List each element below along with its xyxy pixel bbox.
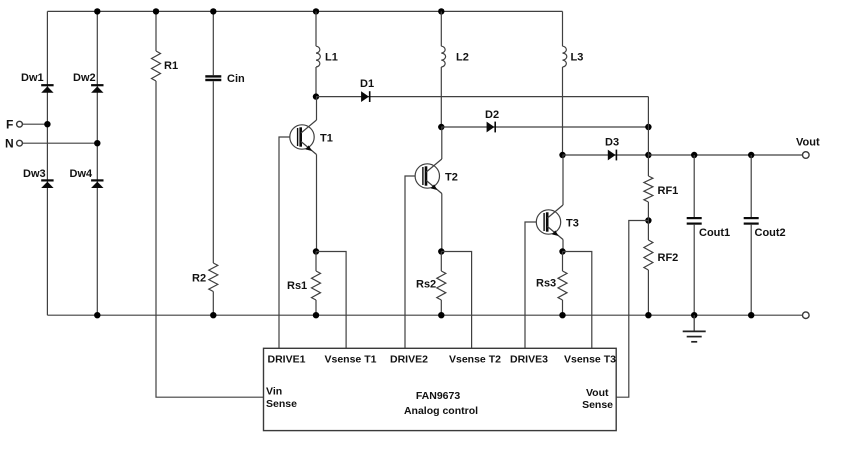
wire R2 bottom: [212, 292, 214, 316]
wire DRIVE3: [525, 222, 537, 348]
wire T1 emitter: [316, 155, 318, 252]
junction Rs3 bottom rail: [559, 312, 565, 318]
wire Cin to R2: [212, 81, 214, 263]
svg-text:Cout1: Cout1: [699, 227, 730, 239]
junction R1 top rail: [153, 8, 159, 14]
wire top rail: [47, 10, 562, 12]
wire DRIVE2: [405, 176, 415, 348]
svg-text:T3: T3: [566, 217, 579, 229]
node L3/T3/D3: [559, 152, 565, 158]
svg-text:Vin: Vin: [266, 385, 282, 397]
svg-text:T1: T1: [320, 132, 333, 144]
terminal output return: [803, 312, 810, 319]
junction N on leg2: [94, 140, 100, 146]
node L1/T1/D1: [313, 93, 319, 99]
capacitor Cin: [205, 75, 221, 77]
svg-text:DRIVE1: DRIVE1: [268, 354, 306, 366]
wire Cin leg top: [212, 11, 214, 75]
wire Cout2 bottom: [750, 225, 752, 316]
resistor Rs2: [437, 271, 446, 300]
svg-text:Cin: Cin: [227, 73, 245, 85]
junction T2 emitter / Rs2 / Vsense T2: [438, 248, 444, 254]
wire D1 bus corner: [647, 97, 649, 155]
wire T3 emitter: [562, 240, 564, 252]
node L2/T2/D2: [438, 124, 444, 130]
op-amp U1 FAN9673 box: [264, 348, 617, 430]
capacitor Cout2: [744, 217, 759, 219]
wire RF1-RF2: [647, 202, 649, 240]
diode Dw3: [41, 179, 53, 181]
wire T3 collector: [562, 155, 564, 205]
junction RF2 bottom rail: [645, 312, 651, 318]
wire L1 top: [315, 11, 317, 46]
inductor L3: [563, 46, 567, 67]
svg-text:Vsense T1: Vsense T1: [325, 354, 377, 366]
wire L3 to node: [562, 67, 564, 155]
svg-text:Dw3: Dw3: [23, 168, 46, 180]
ground: [693, 315, 695, 331]
wire T2 emitter: [441, 194, 443, 252]
junction Cout2 bottom rail: [748, 312, 754, 318]
svg-text:D2: D2: [485, 109, 499, 121]
svg-text:Dw2: Dw2: [73, 72, 96, 84]
junction RF1/RF2/Vout-sense: [645, 217, 651, 223]
wire Vsense T3: [563, 252, 592, 349]
junction R2 bottom rail: [210, 312, 216, 318]
junction F on leg1: [44, 121, 50, 127]
wire R1 top: [155, 11, 157, 51]
wire Vsense T1: [316, 252, 346, 349]
svg-text:D3: D3: [605, 136, 619, 148]
resistor RF2: [644, 240, 653, 270]
wire bridge leg 2 (Dw2/Dw4): [96, 11, 98, 315]
svg-text:L1: L1: [325, 52, 338, 64]
svg-text:Sense: Sense: [582, 399, 613, 411]
diode D3: [563, 154, 649, 156]
wire Rs2 top: [440, 252, 442, 272]
diode D1: [316, 96, 648, 98]
svg-text:N: N: [5, 137, 14, 151]
svg-text:Vsense T3: Vsense T3: [564, 354, 616, 366]
wire Rs1 top: [315, 252, 317, 272]
svg-text:T2: T2: [445, 171, 458, 183]
wire L1 to node: [315, 67, 317, 97]
transistor T2: [415, 164, 439, 188]
diode Dw2: [91, 84, 103, 86]
junction T3 emitter / Rs3 / Vsense T3: [559, 248, 565, 254]
wire Cout1 bottom: [693, 225, 695, 316]
svg-text:L3: L3: [571, 52, 584, 64]
resistor R1: [152, 51, 161, 81]
wire L2 to node: [440, 67, 442, 127]
junction bridge leg 2 bottom rail: [94, 312, 100, 318]
wire F to bridge: [22, 123, 47, 125]
wire Rs3 bottom: [562, 300, 564, 315]
junction T1 emitter / Rs1 / Vsense T1: [313, 248, 319, 254]
wire Cout1 top: [693, 155, 695, 217]
terminal Vout: [803, 152, 810, 159]
inductor L1: [316, 46, 320, 67]
junction bridge leg 2 top rail: [94, 8, 100, 14]
terminal F: [17, 121, 23, 127]
resistor RF1: [644, 176, 653, 202]
junction D2 cathode bus: [645, 124, 651, 130]
junction Cout2 top: [748, 152, 754, 158]
wire DRIVE1: [279, 137, 290, 348]
junction L1 top rail: [313, 8, 319, 14]
wire T1 collector: [316, 97, 318, 120]
svg-text:Vout: Vout: [586, 387, 609, 399]
svg-text:RF2: RF2: [658, 252, 679, 264]
junction Cin top rail: [210, 8, 216, 14]
wire R1 to Vin Sense: [156, 81, 264, 397]
svg-text:Dw1: Dw1: [21, 72, 44, 84]
svg-text:L2: L2: [456, 52, 469, 64]
svg-text:R1: R1: [164, 60, 178, 72]
junction L2 top rail: [438, 8, 444, 14]
wire RF2 bottom: [647, 270, 649, 315]
junction Rs2 bottom rail: [438, 312, 444, 318]
wire L3 top: [562, 11, 564, 46]
svg-text:Vout: Vout: [796, 137, 820, 149]
wire Rs1 bottom: [315, 300, 317, 315]
svg-text:Sense: Sense: [266, 398, 297, 410]
terminal N: [17, 140, 23, 146]
svg-text:RF1: RF1: [658, 185, 679, 197]
capacitor Cout1: [687, 217, 702, 219]
wire bottom rail: [47, 314, 802, 316]
wire T2 collector: [441, 127, 443, 159]
resistor Rs1: [312, 271, 321, 300]
svg-text:Vsense T2: Vsense T2: [449, 354, 501, 366]
wire Vout line: [648, 154, 802, 156]
wire Rs2 bottom: [440, 300, 442, 315]
junction Cout1 bottom / ground: [691, 312, 697, 318]
wire N to bridge: [22, 142, 97, 144]
svg-text:DRIVE2: DRIVE2: [390, 354, 428, 366]
junction D3 cathode bus: [645, 152, 651, 158]
transistor T1: [290, 125, 314, 149]
svg-text:DRIVE3: DRIVE3: [510, 354, 548, 366]
svg-text:Cout2: Cout2: [755, 227, 786, 239]
junction Rs1 bottom rail: [313, 312, 319, 318]
svg-text:Rs3: Rs3: [536, 278, 556, 290]
svg-text:R2: R2: [192, 272, 206, 284]
svg-text:Dw4: Dw4: [70, 168, 94, 180]
diode Dw1: [41, 84, 53, 86]
svg-text:Rs2: Rs2: [416, 279, 436, 291]
transistor T3: [536, 210, 560, 234]
resistor Rs3: [558, 271, 567, 300]
wire L2 top: [440, 11, 442, 46]
svg-text:Analog control: Analog control: [404, 405, 478, 417]
wire bridge leg 1 (Dw1/Dw3): [46, 11, 48, 315]
diode D2: [441, 126, 648, 128]
svg-text:Rs1: Rs1: [287, 280, 307, 292]
junction Cout1 top: [691, 152, 697, 158]
wire RF1 top: [647, 155, 649, 176]
diode Dw4: [91, 179, 103, 181]
resistor R2: [209, 263, 218, 292]
wire Vout Sense: [616, 221, 648, 398]
wire Rs3 top: [562, 252, 564, 272]
wire Cout2 top: [750, 155, 752, 217]
svg-text:FAN9673: FAN9673: [416, 390, 461, 402]
svg-text:F: F: [6, 118, 13, 132]
inductor L2: [441, 46, 445, 67]
wire Vsense T2: [441, 252, 471, 349]
svg-text:D1: D1: [360, 78, 374, 90]
